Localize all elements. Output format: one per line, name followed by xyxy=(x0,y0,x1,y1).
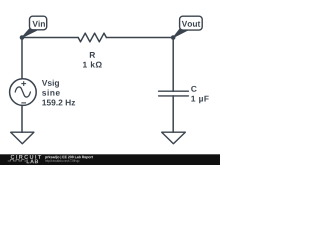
voltage source Vsig circle xyxy=(10,79,37,106)
flag Vin tail xyxy=(22,29,37,38)
ground right xyxy=(162,132,186,144)
flag Vout text xyxy=(182,21,201,27)
flag Vin text xyxy=(32,21,44,27)
source label Vsig xyxy=(42,80,59,88)
flag Vout tail xyxy=(173,29,187,38)
capacitor C bottom plate xyxy=(159,95,189,97)
source value 159.2 Hz xyxy=(42,100,75,106)
source value sine xyxy=(42,90,60,96)
wire top horizontal left (node A to resistor) xyxy=(22,37,78,39)
capacitor value 1 uF xyxy=(191,96,208,104)
resistor R zigzag xyxy=(78,33,106,42)
footer logo dot xyxy=(25,160,26,161)
flag Vin box xyxy=(30,16,47,30)
footer text line 1 xyxy=(45,156,93,159)
node A dot xyxy=(20,35,25,40)
ground left xyxy=(11,132,34,144)
wire right vertical (capacitor to ground) xyxy=(172,96,174,132)
footer logo waveform xyxy=(8,159,25,161)
voltage source sine wave xyxy=(15,87,30,97)
footer bar xyxy=(0,154,220,165)
footer logo CIRCUIT xyxy=(11,155,41,159)
resistor label R xyxy=(90,52,95,58)
voltage source minus sign xyxy=(21,102,26,104)
wire left vertical (node A to source) xyxy=(21,38,23,79)
wire left vertical (source to ground) xyxy=(21,105,23,132)
node B dot xyxy=(171,35,176,40)
wire top horizontal right (resistor to node B) xyxy=(106,37,173,39)
capacitor C top plate xyxy=(159,90,189,92)
flag Vout box xyxy=(180,16,203,30)
resistor value 1 kOhm xyxy=(83,61,102,67)
capacitor label C xyxy=(191,86,196,92)
voltage source plus sign xyxy=(21,81,26,103)
footer logo LAB xyxy=(27,159,38,163)
wire right vertical (node B to capacitor) xyxy=(172,38,174,92)
footer text line 2 xyxy=(45,159,79,162)
